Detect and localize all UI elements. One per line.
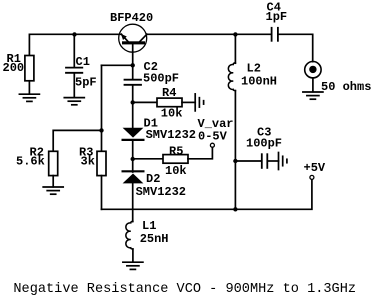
- svg-text:R4: R4: [162, 86, 176, 100]
- ground under R1: [19, 93, 39, 95]
- svg-text:25nH: 25nH: [140, 232, 169, 246]
- inductor L1 coil: [126, 221, 133, 249]
- transistor base bar: [122, 41, 145, 44]
- wire node to R5: [133, 158, 163, 160]
- ground under connector: [303, 91, 323, 93]
- inductor L2 coil: [228, 63, 235, 91]
- ground under R2: [43, 186, 63, 188]
- diode D2 triangle: [123, 174, 144, 184]
- wire C3 to ground: [268, 160, 278, 162]
- svg-text:0-5V: 0-5V: [198, 129, 228, 143]
- node junction dot C3/L2: [233, 159, 237, 163]
- R1 lead to ground: [28, 81, 30, 94]
- svg-text:Negative Resistance VCO - 900M: Negative Resistance VCO - 900MHz to 1.3G…: [13, 282, 356, 297]
- svg-text:100nH: 100nH: [241, 75, 277, 89]
- svg-text:BFP420: BFP420: [110, 11, 153, 25]
- C1 lead to ground: [73, 74, 75, 98]
- connector lead to ground: [312, 78, 314, 92]
- svg-text:5.6k: 5.6k: [16, 155, 45, 169]
- wire node to R4: [133, 101, 157, 103]
- capacitor C2 stem: [132, 65, 134, 79]
- node junction dot C2/R4/D1: [131, 100, 135, 104]
- transistor emitter arrow: [121, 34, 127, 40]
- ground under C1: [64, 97, 84, 99]
- svg-text:50 ohms: 50 ohms: [321, 80, 371, 94]
- node junction dot L2/top wire: [233, 32, 237, 36]
- node junction dot L2/bottom wire: [233, 207, 237, 211]
- wire R2 branch: [53, 130, 101, 151]
- D2 lead down through bottom wire to L1: [132, 159, 134, 172]
- wire top-left from R1 corner to transistor emitter: [29, 34, 121, 55]
- wire base node left: [102, 64, 133, 66]
- node junction dot base node: [131, 63, 135, 67]
- L2 lead down to bottom wire: [234, 91, 236, 210]
- capacitor C4 plates: [271, 28, 273, 41]
- svg-text:100pF: 100pF: [246, 137, 282, 151]
- node junction dot R2/R3: [99, 128, 103, 132]
- resistor R3 body: [97, 151, 106, 175]
- wire C4 to output connector corner: [278, 34, 313, 61]
- transistor Q1 BFP420 circle: [119, 24, 147, 52]
- svg-text:SMV1232: SMV1232: [146, 128, 196, 142]
- svg-text:5pF: 5pF: [75, 76, 97, 90]
- transistor emitter line: [121, 34, 128, 41]
- wire top-right from transistor collector to C4: [147, 33, 271, 35]
- diode D1 lead: [132, 102, 134, 127]
- transistor collector line: [140, 34, 147, 41]
- svg-text:+5V: +5V: [304, 161, 326, 175]
- output connector circle: [305, 61, 321, 77]
- L1 stem to ground: [132, 249, 134, 262]
- R3 lead down to bottom wire: [101, 176, 103, 210]
- C2 lead to R4 node: [132, 86, 134, 103]
- ground right of C3: [278, 153, 280, 170]
- wire down to R2/R3 node: [101, 65, 103, 151]
- terminal V_var: [210, 143, 214, 147]
- wire R4 to ground: [182, 101, 195, 103]
- svg-text:10k: 10k: [165, 164, 187, 178]
- svg-text:R5: R5: [169, 144, 183, 158]
- resistor R2 body: [49, 151, 58, 175]
- resistor R1 body: [25, 56, 34, 81]
- R2 lead to ground: [52, 176, 54, 187]
- D1 lead to varactor node: [132, 141, 134, 159]
- svg-text:1pF: 1pF: [266, 10, 288, 24]
- wire C3 from L2 node: [235, 160, 261, 162]
- transistor base lead down to node: [132, 44, 134, 65]
- svg-text:L2: L2: [247, 62, 261, 76]
- svg-text:10k: 10k: [161, 107, 183, 121]
- inductor L2 lead from top wire: [234, 34, 236, 63]
- svg-text:500pF: 500pF: [143, 71, 179, 85]
- node A junction dot C1/top wire: [72, 32, 76, 36]
- capacitor C1 plates: [66, 67, 82, 69]
- diode D1 cathode bar: [123, 139, 144, 141]
- svg-text:D2: D2: [146, 172, 160, 186]
- wire C1 stem: [73, 34, 75, 67]
- svg-text:3k: 3k: [81, 155, 95, 169]
- bottom wire: [102, 179, 312, 209]
- ground right of R4: [194, 94, 196, 111]
- diode D2 cathode bar: [123, 170, 144, 172]
- resistor R5 body: [163, 155, 188, 164]
- svg-text:SMV1232: SMV1232: [136, 185, 186, 199]
- diode D1 triangle: [123, 128, 144, 138]
- terminal +5V: [310, 175, 314, 179]
- node junction dot varactor/R5: [131, 157, 135, 161]
- resistor R4 body: [157, 98, 182, 107]
- svg-text:C1: C1: [76, 55, 90, 69]
- capacitor C2 plates: [125, 79, 142, 81]
- output connector center dot: [309, 66, 316, 73]
- svg-text:200: 200: [3, 61, 25, 75]
- ground under L1: [123, 261, 143, 263]
- capacitor C3 plates: [261, 154, 263, 168]
- wire R5 to V_var terminal: [188, 147, 212, 159]
